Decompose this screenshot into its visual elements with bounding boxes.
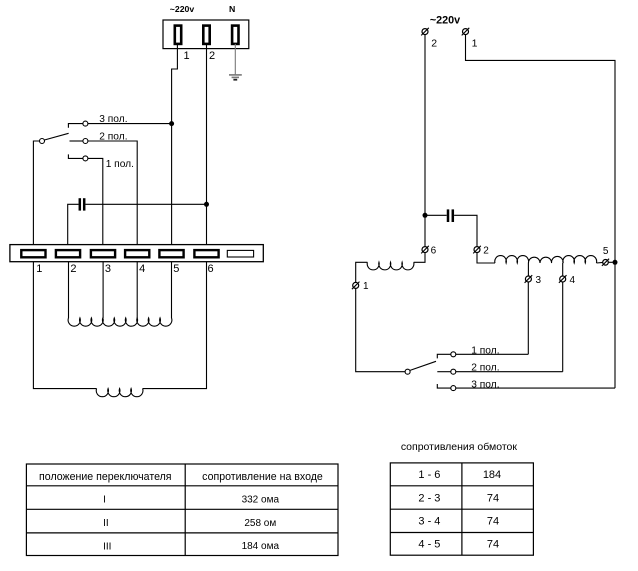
X1 socket 2	[203, 26, 209, 44]
svg-text:3 пол.: 3 пол.	[99, 114, 127, 125]
wire: terminal 2 down to winding	[68, 262, 70, 318]
svg-text:258 ом: 258 ом	[244, 518, 276, 529]
wire: contact 2 пол. to terminal 4 tap	[456, 371, 563, 373]
svg-text:332 ома: 332 ома	[242, 495, 280, 506]
switch SA2 contact 3 пол. stub	[437, 384, 451, 388]
svg-text:III: III	[103, 541, 111, 552]
switch SA1 blade	[44, 133, 68, 140]
svg-text:2: 2	[431, 37, 437, 49]
switch SA2 blade	[410, 361, 436, 370]
svg-text:N: N	[229, 4, 235, 14]
svg-text:4: 4	[139, 263, 145, 275]
X2 terminal 1	[21, 250, 45, 257]
wire: terminal 6 down to winding 1-6	[414, 253, 425, 263]
svg-text:4: 4	[570, 275, 576, 286]
switch SA1 contact 3 пол. stub	[68, 124, 83, 128]
ground PE symbol	[229, 75, 242, 80]
winding 2-5 with taps (speed coil)	[68, 318, 172, 326]
X1 socket N	[232, 26, 238, 44]
X2 terminal 5	[159, 250, 183, 257]
svg-text:1: 1	[184, 50, 190, 62]
terminal strip X2 body	[10, 245, 263, 262]
wire: winding tap to terminal 4	[562, 263, 564, 276]
svg-text:3: 3	[536, 275, 542, 286]
switch SA2 contact 2 пол. stub	[437, 371, 451, 373]
svg-text:3: 3	[105, 263, 111, 275]
wire: terminal 3 tap into winding	[102, 262, 104, 318]
node: winding end 5 junction	[613, 260, 618, 265]
wire: X1 N down to ground	[234, 44, 236, 75]
svg-text:184 ома: 184 ома	[242, 541, 280, 552]
wire: contact 3 пол. to node on 220v line	[88, 123, 172, 125]
wire: contact 1 пол. to terminal 3 tap	[456, 353, 529, 355]
wire: winding tap to terminal 3	[527, 263, 529, 276]
svg-text:1: 1	[36, 263, 42, 275]
terminal block X1 outline	[163, 20, 249, 49]
svg-text:1: 1	[363, 281, 369, 292]
svg-text:74: 74	[487, 539, 499, 551]
wire: terminal 5 down to winding	[171, 262, 173, 318]
main winding 1-6	[96, 389, 143, 397]
X2 terminal 6	[194, 250, 218, 257]
svg-text:2 пол.: 2 пол.	[99, 131, 127, 142]
wire: C1 left plate to strip terminal 2	[68, 204, 79, 244]
svg-text:74: 74	[487, 516, 499, 528]
switch SA1 common contact	[40, 139, 45, 144]
svg-text:6: 6	[208, 263, 214, 275]
wire: C2 right plate down to motor terminal 2	[454, 215, 477, 246]
wire: winding 1-6 left end to terminal 1	[356, 262, 368, 282]
svg-text:3 - 4: 3 - 4	[418, 516, 440, 528]
svg-text:2: 2	[483, 245, 489, 256]
winding 2-5 (right circuit)	[495, 256, 597, 263]
X2 terminal 4	[125, 250, 149, 257]
winding 1-6 (right circuit)	[367, 262, 414, 270]
svg-text:2 - 3: 2 - 3	[418, 492, 440, 504]
switch SA2 contact 1 пол. stub	[437, 354, 451, 358]
svg-text:5: 5	[173, 263, 179, 275]
switch SA1 contact 1 пол. stub	[68, 154, 83, 158]
svg-text:~220v: ~220v	[430, 15, 460, 27]
svg-text:5: 5	[603, 246, 609, 257]
wire: terminal 2 down to winding 2-5	[477, 253, 495, 263]
wire: contact 1 пол. to strip terminal 3	[88, 158, 103, 244]
wire: terminal 4 down to switch contact 2 пол.	[562, 282, 564, 372]
svg-text:сопротивление на входе: сопротивление на входе	[202, 471, 323, 483]
table: winding resistances	[390, 463, 533, 555]
svg-text:2: 2	[70, 263, 76, 275]
svg-text:1 пол.: 1 пол.	[106, 159, 134, 170]
svg-text:сопротивления обмоток: сопротивления обмоток	[401, 441, 518, 453]
X2 terminal numbers	[36, 263, 213, 275]
table: switch position vs input resistance	[26, 464, 338, 556]
node: C2 junction	[423, 213, 428, 218]
motor terminal 5	[602, 259, 609, 266]
wire: terminal 1 down to switch common	[356, 288, 405, 371]
wire: winding right end to terminal 5	[597, 261, 603, 264]
wire: C1 right plate to node on pin2 line	[86, 203, 207, 205]
wire: C2 left plate to node	[425, 214, 447, 216]
svg-text:74: 74	[487, 492, 499, 504]
svg-text:II: II	[103, 518, 109, 529]
svg-text:положение переключателя: положение переключателя	[39, 471, 171, 483]
wire: main winding to terminal 6	[143, 262, 207, 389]
svg-text:1 пол.: 1 пол.	[471, 345, 499, 356]
switch SA1 contact 3 пол.	[83, 121, 88, 126]
svg-text:2: 2	[209, 50, 215, 62]
X2 terminal 2	[56, 250, 80, 257]
capacitor C2 plates	[448, 209, 453, 222]
wire: terminal 3 down to switch contact 1 пол.	[527, 282, 529, 354]
terminal 2 of line (right circuit)	[421, 28, 429, 36]
switch SA1 contact 2 пол.	[83, 139, 88, 144]
switch SA1 contact 2 пол. stub	[70, 140, 83, 142]
svg-text:4 - 5: 4 - 5	[418, 539, 440, 551]
wire: strip terminal 1 up to switch common	[33, 141, 39, 245]
node: junction of capacitor line with pin2 line	[204, 202, 209, 207]
svg-text:3 пол.: 3 пол.	[471, 379, 499, 390]
terminal 1 of line (right circuit)	[462, 28, 470, 36]
motor terminal 6	[421, 246, 429, 254]
svg-text:1: 1	[472, 37, 478, 49]
motor terminal 3	[525, 275, 533, 283]
X2 terminal 3	[91, 250, 115, 257]
capacitor C1 plates	[80, 198, 84, 210]
motor terminal 1	[352, 282, 360, 290]
wire: contact 3 пол. to right edge	[456, 387, 615, 389]
X2 blank terminal	[227, 250, 253, 257]
switch SA2 contact 2 пол.	[451, 369, 456, 374]
switch SA2 common contact	[405, 369, 410, 374]
motor terminal 4	[559, 275, 567, 283]
switch SA2 contact 3 пол.	[451, 386, 456, 391]
wire: terminal 1 down to main winding	[33, 262, 96, 389]
switch SA2 contact 1 пол.	[451, 352, 456, 357]
wire: contact 2 пол. to strip terminal 4	[88, 141, 137, 245]
wire: line terminal 2 down to motor terminal 6	[424, 35, 426, 247]
wire: terminal 4 tap into winding	[136, 262, 138, 318]
svg-text:2 пол.: 2 пол.	[471, 363, 499, 374]
svg-text:I: I	[103, 494, 106, 505]
X1 socket 1	[175, 26, 181, 44]
switch SA1 contact 1 пол.	[83, 156, 88, 161]
motor terminal 2	[473, 246, 481, 254]
svg-text:~220v: ~220v	[170, 4, 195, 14]
wire: line terminal 1 right and down the edge	[466, 35, 616, 389]
wire: X1 pin2 to terminal 6 of strip	[206, 44, 208, 245]
svg-text:184: 184	[483, 469, 501, 481]
svg-text:1 - 6: 1 - 6	[418, 469, 440, 481]
wire: terminal 5 to node	[608, 261, 612, 263]
node: junction of 3 пол. line with 220v line	[169, 121, 174, 126]
wire: X1 pin1 to terminal 5 of strip	[172, 44, 178, 245]
svg-text:6: 6	[431, 245, 437, 256]
